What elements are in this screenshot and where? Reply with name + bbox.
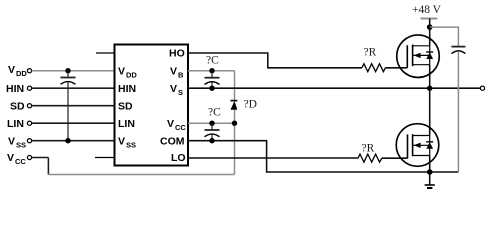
- node VCC junction at C3: [209, 121, 214, 126]
- node VS junction at C2: [209, 86, 214, 91]
- transistor Q1 source wire: [429, 65, 431, 89]
- wire VB down to diode: [234, 71, 236, 101]
- IC pin label VB: [170, 66, 184, 80]
- node output junction: [427, 86, 432, 91]
- svg-text:DD: DD: [16, 69, 27, 78]
- terminal VCC label: [7, 152, 26, 166]
- svg-text:?C: ?C: [208, 107, 221, 119]
- node COM junction at C3: [209, 138, 214, 143]
- stub left of IC at LO row: [95, 157, 115, 159]
- svg-text:V: V: [167, 118, 174, 130]
- transistor Q1: [397, 35, 440, 78]
- wire SD terminal to IC: [32, 105, 115, 107]
- svg-text:HO: HO: [169, 48, 185, 60]
- svg-text:SD: SD: [118, 101, 133, 113]
- svg-text:LO: LO: [171, 152, 186, 164]
- wire VCC row from IC: [188, 122, 235, 124]
- wire LO from IC: [188, 157, 358, 159]
- svg-text:CC: CC: [175, 123, 186, 132]
- node VB junction: [209, 68, 214, 73]
- wire VDD terminal to IC: [32, 70, 115, 72]
- wire VCC down: [47, 158, 49, 175]
- transistor Q2 drain wire: [429, 88, 431, 135]
- IC U1 box: [115, 45, 189, 166]
- capacitor C4 bypass: [451, 47, 465, 172]
- wire VB from IC: [188, 70, 235, 72]
- svg-text:B: B: [178, 71, 184, 80]
- terminal VSS label: [8, 136, 26, 150]
- transistor Q2 source wire: [429, 156, 431, 173]
- terminal SD: [27, 104, 31, 108]
- IC pin label VDD: [118, 66, 137, 80]
- IC pin label VS: [170, 83, 183, 97]
- svg-text:SS: SS: [16, 141, 26, 150]
- wire R2 to Q2 gate: [382, 157, 408, 159]
- capacitor C2 bootstrap VB-VS: [205, 71, 220, 89]
- svg-text:HIN: HIN: [6, 83, 24, 95]
- wire HO from IC: [188, 53, 362, 68]
- ground: [425, 172, 435, 188]
- svg-text:?R: ?R: [362, 143, 375, 155]
- wire HIN terminal to IC: [32, 87, 115, 89]
- capacitor C1 between VDD and VSS: [61, 68, 76, 143]
- svg-text:V: V: [8, 64, 15, 76]
- terminal VDD: [27, 69, 31, 73]
- resistor R1: [362, 64, 386, 72]
- terminal VSS: [27, 139, 31, 143]
- wire branch to bypass cap: [430, 27, 459, 46]
- terminal output: [480, 86, 484, 90]
- stub left of IC at HO row: [96, 52, 115, 54]
- wire VSS terminal to IC: [32, 140, 115, 142]
- svg-text:?R: ?R: [364, 47, 377, 59]
- svg-text:?C: ?C: [206, 55, 219, 67]
- terminal VDD label: [8, 64, 27, 78]
- wire VCC terminal right: [32, 157, 49, 159]
- +48V rail bar: [421, 18, 438, 20]
- resistor R2: [358, 154, 382, 162]
- svg-text:LIN: LIN: [118, 118, 135, 130]
- wire VS row to output terminal: [188, 87, 480, 89]
- capacitor C3 VCC-COM: [205, 123, 220, 141]
- svg-text:HIN: HIN: [118, 83, 136, 95]
- terminal HIN: [27, 86, 31, 90]
- svg-text:V: V: [118, 136, 125, 148]
- wire R1 to Q1 gate: [385, 67, 407, 69]
- wire COM from IC: [188, 141, 458, 172]
- svg-text:V: V: [118, 66, 125, 78]
- terminal VCC: [27, 155, 31, 159]
- node ground junction: [427, 169, 433, 175]
- svg-text:COM: COM: [160, 136, 185, 148]
- svg-text:LIN: LIN: [7, 118, 24, 130]
- svg-text:S: S: [178, 88, 183, 97]
- wire VCC under IC: [48, 174, 234, 176]
- svg-text:V: V: [8, 136, 15, 148]
- wire +48V down: [429, 19, 431, 28]
- IC pin label VCC: [167, 118, 186, 132]
- wire VCC up to VCC pin row: [234, 123, 236, 174]
- svg-text:CC: CC: [15, 157, 26, 166]
- wire LIN terminal to IC: [32, 122, 115, 124]
- IC pin label VSS: [118, 136, 136, 150]
- node +48V junction: [427, 24, 433, 30]
- node VCC junction at diode: [232, 121, 237, 126]
- transistor Q1 drain wire: [429, 27, 431, 46]
- svg-text:+48 V: +48 V: [412, 4, 442, 16]
- svg-text:V: V: [7, 152, 14, 164]
- svg-text:SD: SD: [10, 101, 25, 113]
- svg-text:V: V: [170, 66, 177, 78]
- svg-text:V: V: [170, 83, 177, 95]
- svg-text:?D: ?D: [244, 99, 257, 111]
- diode D1 bootstrap: [231, 101, 238, 124]
- terminal LIN: [27, 121, 31, 125]
- svg-text:SS: SS: [126, 141, 136, 150]
- transistor Q2: [396, 124, 439, 167]
- svg-text:DD: DD: [126, 71, 137, 80]
